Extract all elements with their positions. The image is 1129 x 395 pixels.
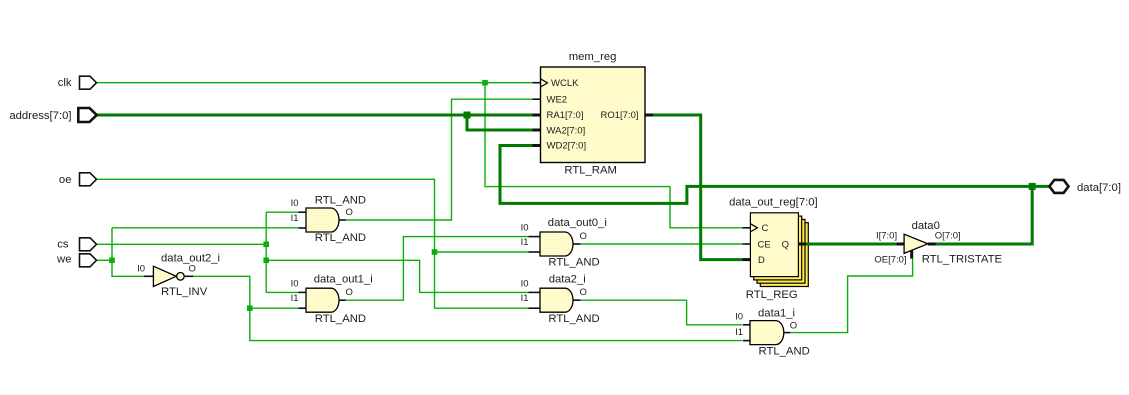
svg-text:WD2[7:0]: WD2[7:0] [547,141,587,152]
svg-text:RTL_INV: RTL_INV [161,286,208,298]
svg-text:data_out0_i: data_out0_i [548,217,607,229]
svg-text:Q: Q [782,239,789,250]
svg-text:data_out1_i: data_out1_i [314,274,373,286]
svg-text:clk: clk [58,77,72,89]
svg-text:RTL_AND: RTL_AND [315,232,366,244]
svg-text:I0: I0 [137,263,145,274]
svg-text:WA2[7:0]: WA2[7:0] [547,125,586,136]
svg-text:RO1[7:0]: RO1[7:0] [600,110,638,121]
svg-text:O: O [346,207,353,218]
svg-text:D: D [758,255,765,266]
svg-text:data_out_reg[7:0]: data_out_reg[7:0] [729,196,818,208]
svg-text:I1: I1 [735,327,743,338]
svg-text:I1: I1 [521,293,529,304]
svg-text:I1: I1 [291,213,299,224]
svg-text:I0: I0 [521,223,529,234]
svg-text:I0: I0 [291,278,299,289]
svg-text:WCLK: WCLK [551,78,579,89]
svg-text:we: we [56,253,71,265]
svg-text:data[7:0]: data[7:0] [1077,182,1121,194]
svg-text:RTL_AND: RTL_AND [315,313,366,325]
svg-text:I0: I0 [521,278,529,289]
svg-text:RTL_RAM: RTL_RAM [564,165,617,177]
svg-text:RTL_AND: RTL_AND [315,194,366,206]
svg-text:cs: cs [57,239,69,251]
svg-text:RTL_AND: RTL_AND [759,346,810,358]
svg-text:I1: I1 [521,237,529,248]
svg-text:data1_i: data1_i [758,308,795,320]
svg-text:data2_i: data2_i [549,273,586,285]
svg-text:oe: oe [59,174,72,186]
svg-text:I0: I0 [735,312,743,323]
svg-text:RTL_TRISTATE: RTL_TRISTATE [922,253,1003,265]
svg-text:I1: I1 [291,293,299,304]
svg-text:O: O [790,320,797,331]
svg-text:address[7:0]: address[7:0] [9,110,71,122]
svg-text:O: O [189,264,196,275]
svg-text:RTL_REG: RTL_REG [746,289,798,301]
svg-text:OE[7:0]: OE[7:0] [874,255,906,266]
svg-text:CE: CE [758,239,771,250]
svg-text:O: O [580,231,587,242]
svg-text:C: C [762,223,769,234]
svg-text:RTL_AND: RTL_AND [548,256,599,268]
svg-text:RTL_AND: RTL_AND [548,313,599,325]
svg-text:WE2: WE2 [547,94,568,105]
svg-text:O: O [580,287,587,298]
svg-text:mem_reg: mem_reg [569,51,617,63]
svg-text:O[7:0]: O[7:0] [935,231,961,242]
svg-text:I0: I0 [291,198,299,209]
svg-text:RA1[7:0]: RA1[7:0] [547,110,584,121]
svg-text:O: O [346,287,353,298]
svg-text:I[7:0]: I[7:0] [876,231,897,242]
